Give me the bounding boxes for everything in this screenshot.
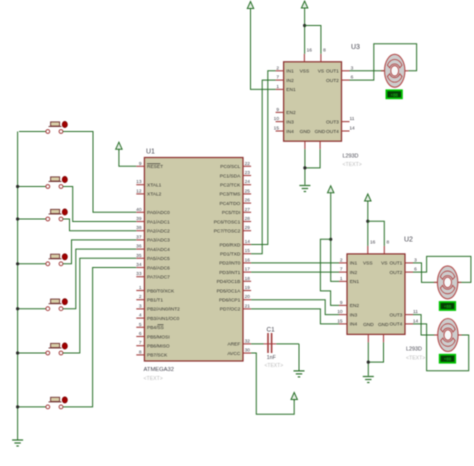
svg-text:PD1/TXD: PD1/TXD xyxy=(220,252,241,258)
svg-text:VS: VS xyxy=(381,261,387,267)
svg-text:4: 4 xyxy=(139,313,142,319)
svg-text:15: 15 xyxy=(245,248,251,254)
svg-text:EN1: EN1 xyxy=(350,279,360,285)
svg-text:EN1: EN1 xyxy=(286,87,296,93)
svg-text:PC1/SDA: PC1/SDA xyxy=(220,173,241,179)
svg-text:7: 7 xyxy=(340,267,343,273)
svg-text:11: 11 xyxy=(350,116,355,122)
svg-text:PD6/ICP1: PD6/ICP1 xyxy=(219,298,241,304)
svg-text:PC5/TDI: PC5/TDI xyxy=(222,210,240,216)
svg-text:26: 26 xyxy=(245,198,251,204)
svg-text:30: 30 xyxy=(245,348,251,354)
svg-text:PA5/ADC5: PA5/ADC5 xyxy=(147,256,170,262)
svg-text:33: 33 xyxy=(136,271,142,277)
svg-text:U2: U2 xyxy=(404,237,413,244)
svg-text:GND: GND xyxy=(378,322,389,328)
svg-text:PB2/AIN0/INT2: PB2/AIN0/INT2 xyxy=(147,307,180,313)
svg-text:25: 25 xyxy=(245,188,251,194)
svg-text:PC3/TMS: PC3/TMS xyxy=(220,192,241,198)
svg-text:PA6/ADC6: PA6/ADC6 xyxy=(147,265,170,271)
svg-text:37: 37 xyxy=(136,234,142,240)
svg-text:17: 17 xyxy=(245,267,251,273)
svg-text:19: 19 xyxy=(245,285,251,291)
svg-text:<TEXT>: <TEXT> xyxy=(406,356,425,362)
svg-text:23: 23 xyxy=(245,170,251,176)
svg-text:12: 12 xyxy=(136,188,142,194)
svg-text:IN3: IN3 xyxy=(350,312,358,318)
svg-text:7: 7 xyxy=(139,340,142,346)
svg-text:IN1: IN1 xyxy=(286,69,294,75)
svg-text:16: 16 xyxy=(307,48,313,54)
svg-text:8: 8 xyxy=(139,349,142,355)
svg-text:L293D: L293D xyxy=(343,154,359,160)
svg-text:XTAL1: XTAL1 xyxy=(147,183,162,189)
svg-text:OUT2: OUT2 xyxy=(390,270,403,276)
svg-text:U1: U1 xyxy=(146,149,155,156)
svg-text:PD5/OC1A: PD5/OC1A xyxy=(217,288,242,294)
svg-text:PD0/RXD: PD0/RXD xyxy=(220,242,241,248)
svg-text:PB6/MISO: PB6/MISO xyxy=(147,344,170,350)
svg-text:GND: GND xyxy=(300,129,311,135)
svg-text:PC2/TCK: PC2/TCK xyxy=(220,183,241,189)
svg-text:IN3: IN3 xyxy=(286,119,294,125)
svg-text:29: 29 xyxy=(245,225,251,231)
svg-text:1nF: 1nF xyxy=(267,355,276,361)
svg-text:PC0/SCL: PC0/SCL xyxy=(220,164,240,170)
svg-text:9: 9 xyxy=(340,300,343,306)
svg-text:EN2: EN2 xyxy=(286,110,296,116)
svg-text:13: 13 xyxy=(136,179,142,185)
svg-text:20: 20 xyxy=(245,294,251,300)
svg-text:VSS: VSS xyxy=(363,261,373,267)
svg-text:27: 27 xyxy=(245,207,251,213)
svg-text:7: 7 xyxy=(276,75,279,81)
svg-text:16: 16 xyxy=(370,240,376,246)
svg-text:PB1/T1: PB1/T1 xyxy=(147,298,163,304)
svg-text:OUT3: OUT3 xyxy=(390,312,403,318)
svg-text:16: 16 xyxy=(245,257,251,263)
svg-text:PA2/ADC2: PA2/ADC2 xyxy=(147,229,170,235)
svg-text:XTAL2: XTAL2 xyxy=(147,192,162,198)
svg-text:1: 1 xyxy=(276,84,279,90)
svg-text:18: 18 xyxy=(245,276,251,282)
svg-text:VSS: VSS xyxy=(300,69,310,75)
svg-text:2: 2 xyxy=(340,257,343,263)
svg-text:PD2/INT0: PD2/INT0 xyxy=(219,261,240,267)
svg-text:3: 3 xyxy=(139,303,142,309)
svg-text:IN2: IN2 xyxy=(350,270,358,276)
svg-text:38: 38 xyxy=(136,225,142,231)
svg-text:PC6/TOSC1: PC6/TOSC1 xyxy=(214,219,241,225)
svg-text:PD7/OC2: PD7/OC2 xyxy=(220,307,241,313)
svg-text:PA3/ADC3: PA3/ADC3 xyxy=(147,238,170,244)
svg-text:GND: GND xyxy=(315,129,326,135)
svg-text:14: 14 xyxy=(245,239,251,245)
svg-text:AREF: AREF xyxy=(228,342,241,348)
svg-text:AVCC: AVCC xyxy=(227,351,241,357)
svg-text:OUT1: OUT1 xyxy=(326,69,339,75)
svg-text:<TEXT>: <TEXT> xyxy=(265,363,284,369)
svg-text:OUT2: OUT2 xyxy=(326,78,339,84)
svg-text:21: 21 xyxy=(245,303,251,309)
svg-text:PC4/TDO: PC4/TDO xyxy=(220,201,241,207)
svg-text:PC7/TOSC2: PC7/TOSC2 xyxy=(214,229,241,235)
svg-text:+88: +88 xyxy=(444,357,452,362)
svg-text:PD3/INT1: PD3/INT1 xyxy=(219,270,240,276)
svg-text:OUT4: OUT4 xyxy=(390,322,403,328)
svg-text:8: 8 xyxy=(323,48,326,54)
svg-text:IN4: IN4 xyxy=(350,322,358,328)
svg-text:22: 22 xyxy=(245,161,251,167)
svg-text:PB7/SCK: PB7/SCK xyxy=(147,353,168,359)
svg-text:1: 1 xyxy=(139,285,142,291)
svg-text:PA1/ADC1: PA1/ADC1 xyxy=(147,219,170,225)
svg-text:35: 35 xyxy=(136,253,142,259)
svg-text:GND: GND xyxy=(363,322,374,328)
svg-text:39: 39 xyxy=(136,216,142,222)
svg-text:L293D: L293D xyxy=(406,347,422,353)
svg-text:5: 5 xyxy=(139,322,142,328)
svg-text:9: 9 xyxy=(139,161,142,167)
svg-text:24: 24 xyxy=(245,179,251,185)
svg-text:OUT3: OUT3 xyxy=(326,119,339,125)
svg-text:8: 8 xyxy=(387,240,390,246)
svg-text:PA7/ADC7: PA7/ADC7 xyxy=(147,275,170,281)
svg-text:2: 2 xyxy=(139,294,142,300)
svg-text:IN4: IN4 xyxy=(286,129,294,135)
svg-text:15: 15 xyxy=(274,126,280,132)
svg-text:PB4/SS: PB4/SS xyxy=(147,325,164,331)
svg-text:14: 14 xyxy=(349,126,355,132)
svg-text:PA4/ADC4: PA4/ADC4 xyxy=(147,247,170,253)
svg-text:IN1: IN1 xyxy=(350,261,358,267)
svg-text:OUT1: OUT1 xyxy=(390,261,403,267)
svg-text:PA0/ADC0: PA0/ADC0 xyxy=(147,210,170,216)
svg-text:U3: U3 xyxy=(351,44,360,51)
svg-text:VS: VS xyxy=(318,69,324,75)
svg-text:+88: +88 xyxy=(444,304,452,309)
svg-text:IN2: IN2 xyxy=(286,78,294,84)
svg-text:1: 1 xyxy=(340,276,343,282)
svg-text:32: 32 xyxy=(245,338,251,344)
svg-text:EN2: EN2 xyxy=(350,303,360,309)
svg-text:28: 28 xyxy=(245,216,251,222)
svg-text:36: 36 xyxy=(136,244,142,250)
svg-text:<TEXT>: <TEXT> xyxy=(144,376,163,382)
svg-text:PB0/T0/XCK: PB0/T0/XCK xyxy=(147,288,175,294)
svg-text:9: 9 xyxy=(276,107,279,113)
svg-text:34: 34 xyxy=(136,262,142,268)
svg-text:OUT4: OUT4 xyxy=(326,129,339,135)
svg-text:RESET: RESET xyxy=(147,164,163,170)
svg-text:<TEXT>: <TEXT> xyxy=(343,162,362,168)
svg-text:40: 40 xyxy=(136,207,142,213)
svg-text:+88: +88 xyxy=(390,92,398,97)
svg-text:PB3/AIN1/OC0: PB3/AIN1/OC0 xyxy=(147,316,180,322)
svg-text:2: 2 xyxy=(276,65,279,71)
svg-text:C1: C1 xyxy=(267,327,276,334)
svg-text:ATMEGA32: ATMEGA32 xyxy=(144,367,175,373)
svg-text:10: 10 xyxy=(274,116,280,122)
svg-text:6: 6 xyxy=(139,331,142,337)
svg-text:PB5/MOSI: PB5/MOSI xyxy=(147,334,170,340)
svg-text:PD4/OC1B: PD4/OC1B xyxy=(217,279,241,285)
